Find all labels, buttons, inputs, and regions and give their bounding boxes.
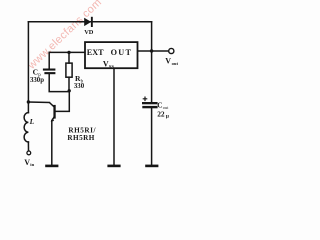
- svg-text:L: L: [29, 117, 35, 126]
- capacitor C 22u (electrolytic): [142, 97, 170, 120]
- transistor Q1: [49, 103, 55, 122]
- node output junction: [150, 49, 153, 52]
- svg-text:out: out: [172, 61, 179, 66]
- wire top rail from switching node to output corner: [28, 21, 151, 23]
- svg-text:SS: SS: [109, 64, 115, 69]
- svg-text:22: 22: [157, 109, 165, 118]
- svg-text:330p: 330p: [30, 77, 44, 84]
- wire inductor top lead: [27, 102, 29, 113]
- ground (output capacitor): [145, 165, 158, 168]
- wire left vertical (diode anode to switching node): [27, 22, 29, 102]
- svg-text:OUT: OUT: [111, 48, 133, 57]
- wire right vertical (top rail down to output node and capacitor): [151, 22, 153, 102]
- svg-text:in: in: [30, 162, 34, 167]
- svg-text:EXT: EXT: [87, 48, 104, 57]
- wire Rb bottom lead to base node: [68, 77, 70, 91]
- wire inductor bottom lead: [27, 142, 29, 151]
- wire Cp bottom lead: [49, 74, 69, 92]
- svg-text:330: 330: [74, 83, 85, 90]
- wire collector branch: [28, 101, 49, 104]
- inductor L winding: [24, 113, 28, 142]
- terminal Vin: [24, 151, 34, 167]
- diode VD: [84, 17, 94, 36]
- wire output node to 22u capacitor lower lead: [151, 108, 153, 165]
- wire emitter to ground: [51, 121, 53, 165]
- ground (emitter): [45, 165, 58, 168]
- node Rb top junction: [67, 51, 70, 54]
- label RH5RI/RH5RH: [67, 126, 96, 142]
- svg-text:V: V: [165, 56, 171, 65]
- node base junction: [68, 89, 71, 92]
- wire Rb top lead: [68, 52, 70, 63]
- wire OUT pin to Vout terminal: [138, 50, 169, 52]
- wire base lead: [56, 91, 70, 112]
- wire EXT pin to Rb and Cp: [49, 51, 85, 53]
- IC U1 RH5RI/RH5RH: [85, 42, 138, 69]
- ground (Vss): [107, 165, 120, 168]
- resistor Rb 330: [66, 63, 85, 90]
- wire Vss pin to ground: [113, 68, 115, 165]
- svg-text:RH5RH: RH5RH: [67, 134, 94, 142]
- wire Cp top lead: [48, 52, 50, 69]
- terminal Vout: [165, 48, 178, 66]
- node switching junction: [27, 100, 30, 103]
- capacitor Cp: [30, 68, 55, 84]
- svg-text:VD: VD: [84, 29, 94, 36]
